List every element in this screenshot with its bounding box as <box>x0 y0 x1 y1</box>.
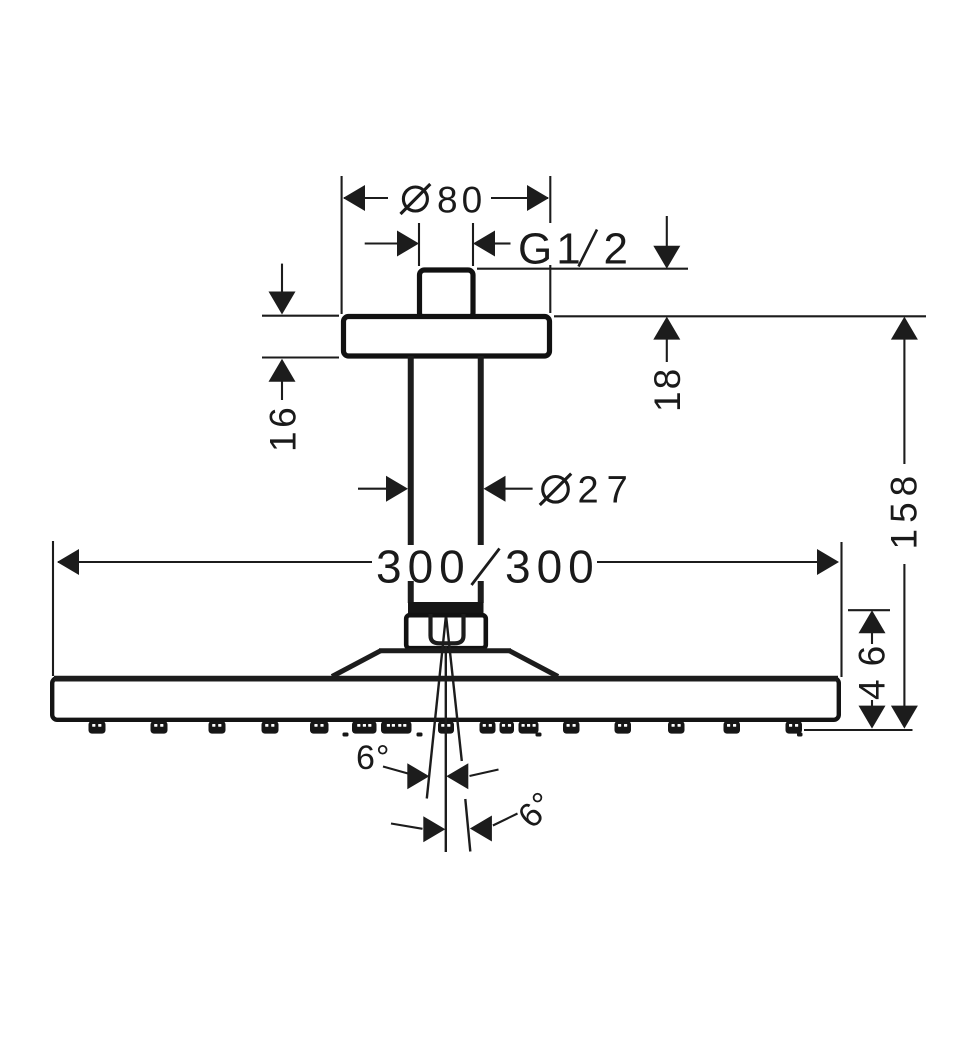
svg-text:80: 80 <box>437 180 486 221</box>
svg-text:27: 27 <box>578 470 636 512</box>
svg-text:300: 300 <box>505 541 600 593</box>
svg-text:G1: G1 <box>518 225 585 274</box>
svg-text:158: 158 <box>884 470 925 550</box>
svg-text:300: 300 <box>376 541 471 593</box>
svg-text:6°: 6° <box>356 739 391 777</box>
svg-text:2: 2 <box>604 225 628 274</box>
svg-text:46: 46 <box>852 633 893 700</box>
svg-text:18: 18 <box>647 367 688 412</box>
svg-text:16: 16 <box>263 404 304 452</box>
